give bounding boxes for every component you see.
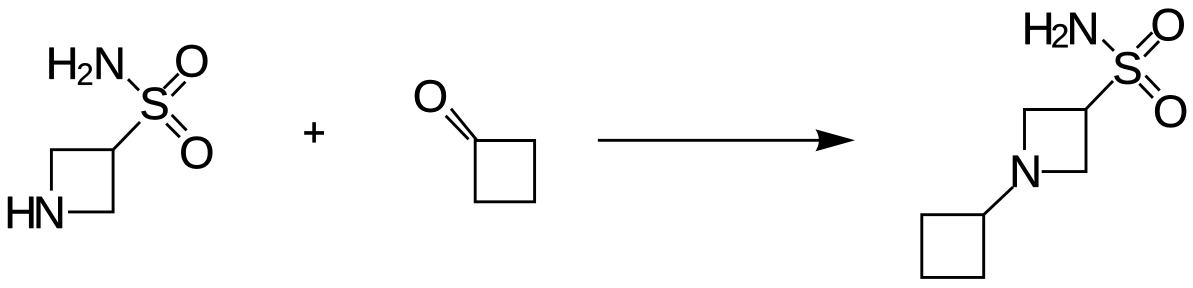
atom label H of H2N (reactant 1 sulfonamide) xyxy=(49,48,74,79)
atom label N of H2N (reactant 1 sulfonamide) xyxy=(97,48,122,79)
atom label O (cyclobutanone carbonyl) xyxy=(415,80,446,112)
reactant 1 azetidine ring xyxy=(51,150,113,212)
bond N-S of sulfonamide (reactant 1) xyxy=(128,79,139,90)
product azetidine ring xyxy=(1025,110,1087,172)
double bond S=O lower (reactant 1) xyxy=(166,124,180,138)
reactant 2 cyclobutanone ring xyxy=(475,141,534,202)
product cyclobutyl ring xyxy=(922,215,984,278)
atom label subscript 2 of H2N (product) xyxy=(1052,24,1067,47)
atom label subscript 2 of H2N (reactant 1) xyxy=(78,63,92,85)
plus sign xyxy=(304,122,324,142)
atom label H of HN (reactant 1 ring NH) xyxy=(8,197,33,228)
atom label N (product ring nitrogen) xyxy=(1013,156,1038,187)
reaction arrow head xyxy=(815,129,855,151)
double bond S=O lower (product) xyxy=(1146,76,1160,91)
atom label O lower (reactant 1 S=O) xyxy=(181,136,212,168)
bond N-S of sulfonamide (product) xyxy=(1103,40,1114,51)
atom label S (reactant 1 sulfonyl) xyxy=(141,87,167,119)
bond ring-N to cyclobutyl (product) xyxy=(984,187,1013,215)
atom label O upper (reactant 1 S=O) xyxy=(176,45,207,77)
double bond S=O upper (reactant 1) xyxy=(164,74,179,89)
atom label S (product sulfonyl) xyxy=(1114,52,1140,84)
double bond C=O of cyclobutanone xyxy=(451,109,477,140)
atom label N of H2N (product sulfonamide) xyxy=(1070,13,1095,44)
atom label O lower (product S=O) xyxy=(1155,95,1186,127)
double bond S=O upper (product) xyxy=(1137,32,1153,48)
bond C3-S (product) xyxy=(1085,81,1113,110)
reaction arrow shaft xyxy=(598,139,848,142)
atom label O upper (product S=O) xyxy=(1153,9,1184,41)
bond C3-S (reactant 1) xyxy=(113,122,140,150)
atom label N of HN (reactant 1 ring NH) xyxy=(37,197,62,228)
atom label H of H2N (product sulfonamide) xyxy=(1025,13,1050,44)
